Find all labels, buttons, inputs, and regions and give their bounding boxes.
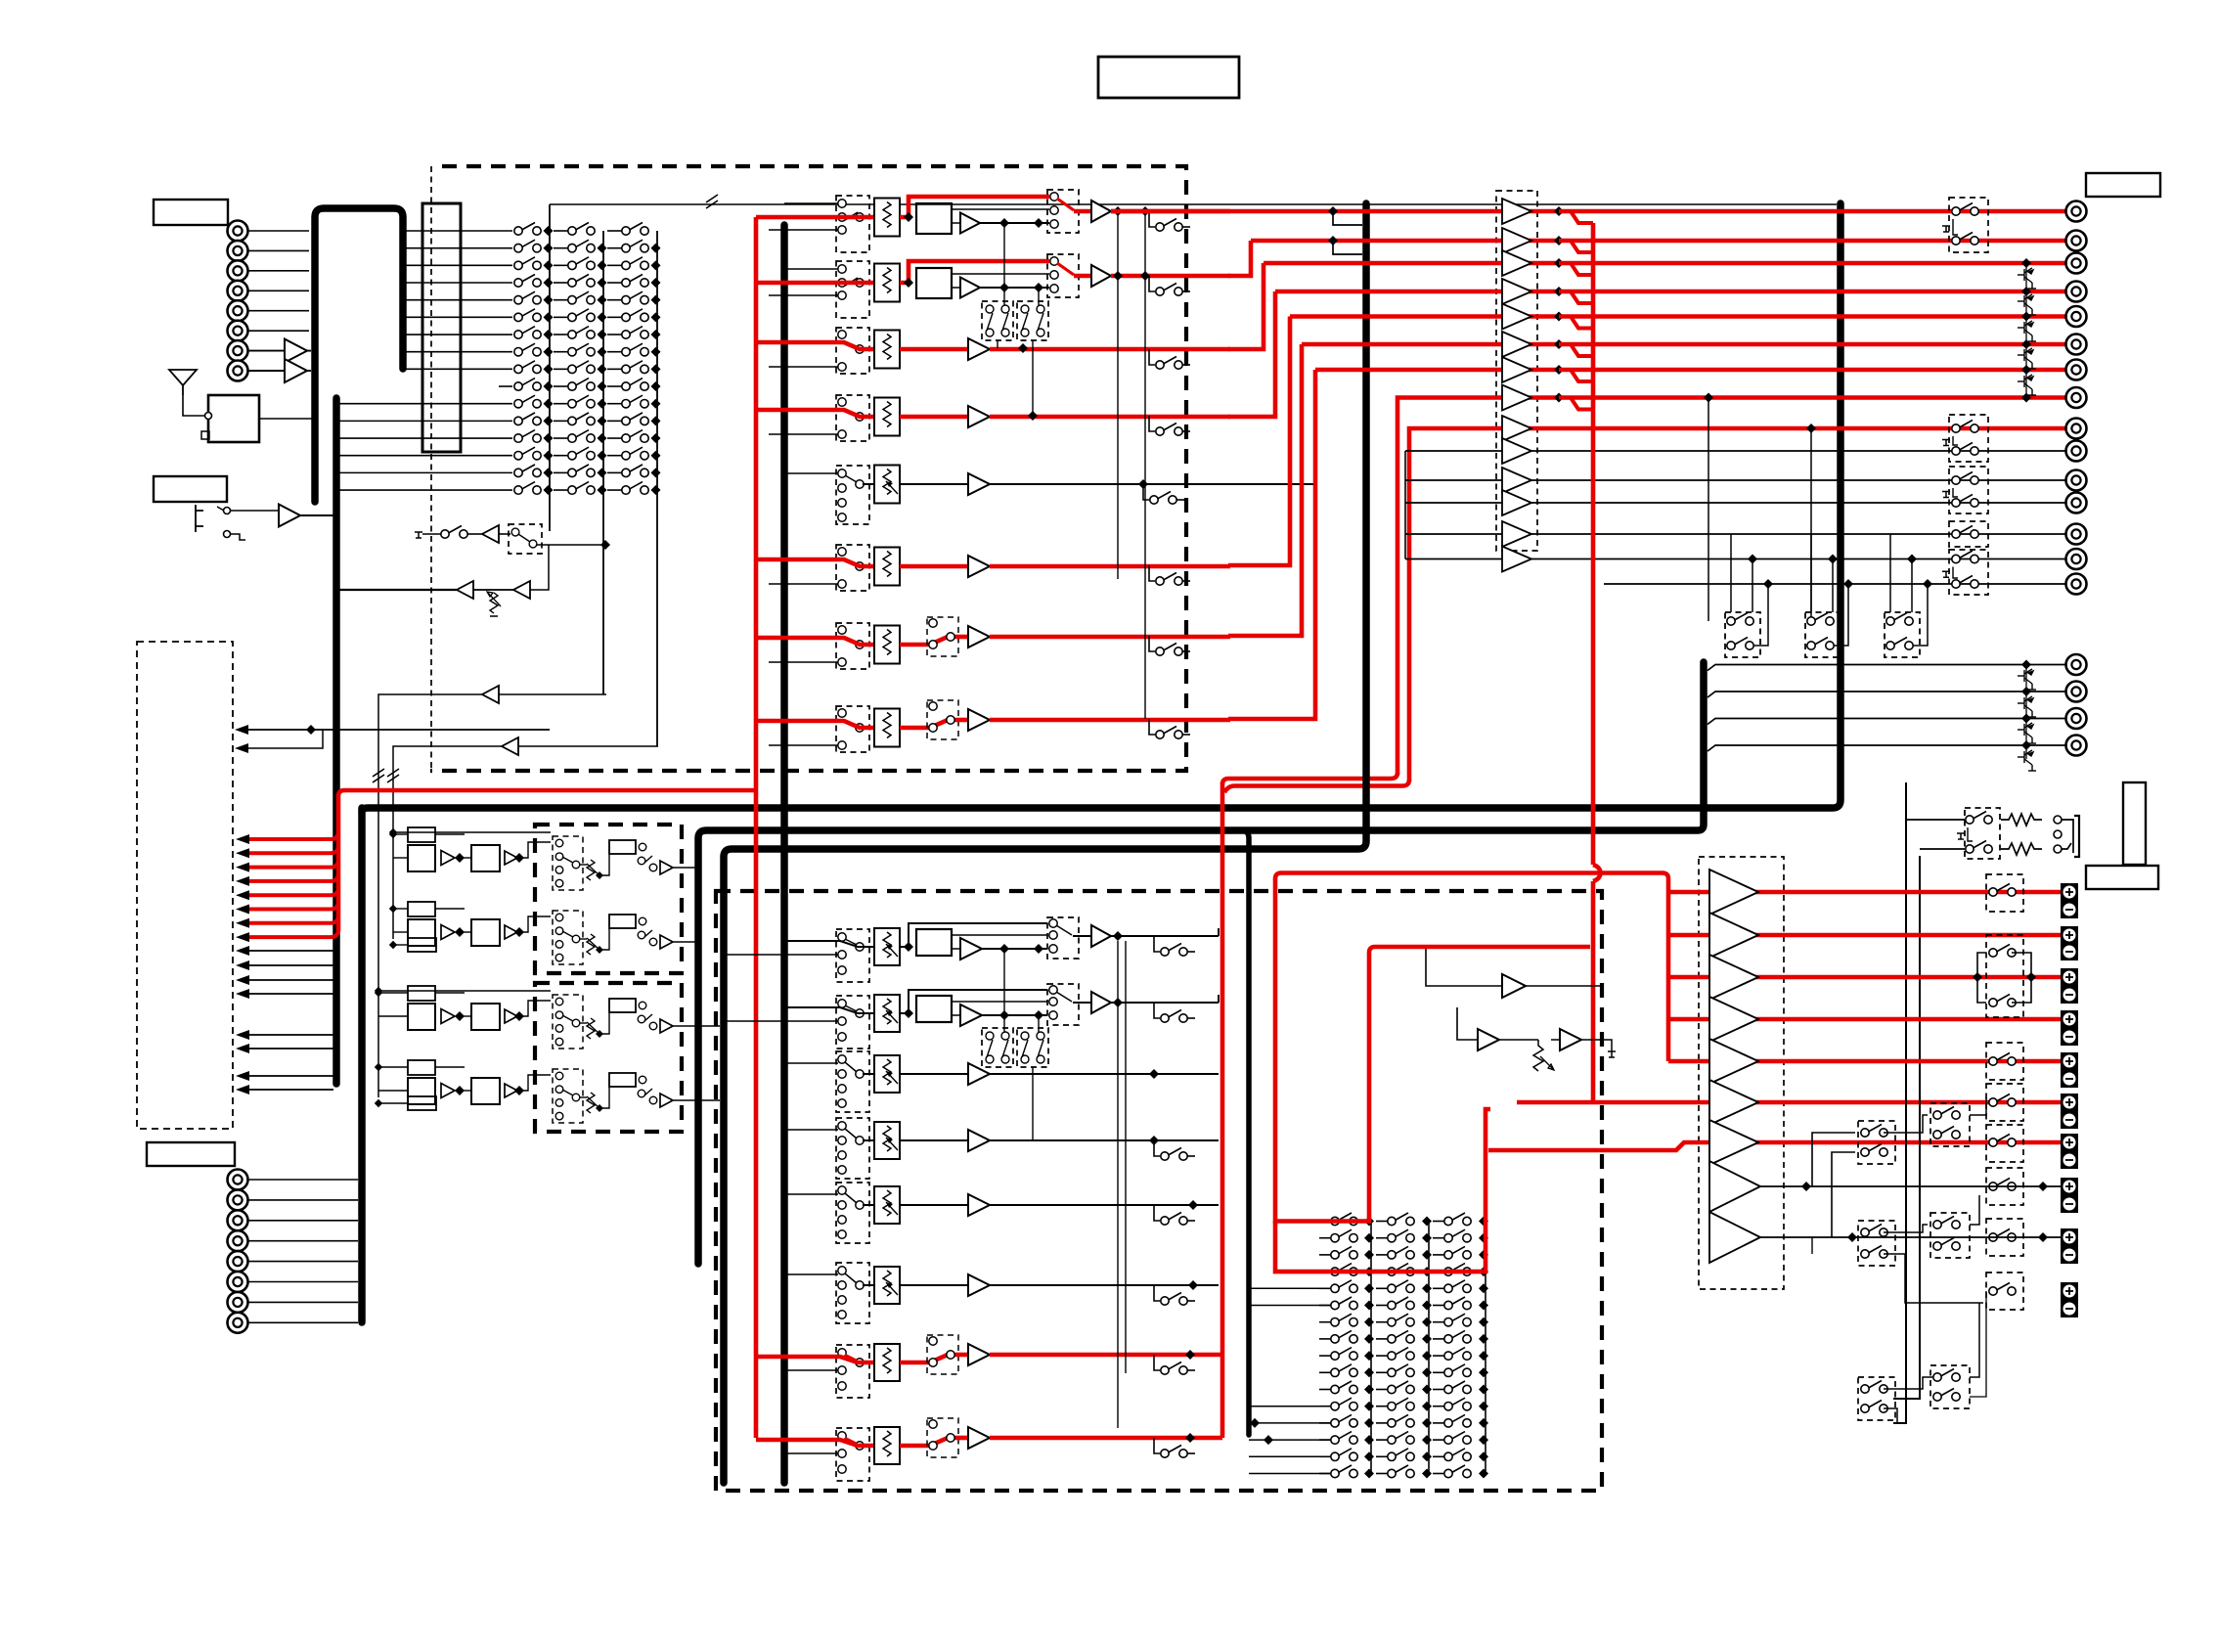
amp aux return 1 (left) xyxy=(499,693,606,695)
wire phones L xyxy=(1893,782,1906,1423)
line buffer xyxy=(1502,304,1531,330)
monitor line xyxy=(1405,558,2066,560)
wire xyxy=(248,370,286,372)
wire xyxy=(393,944,408,946)
wire out xyxy=(1111,274,1230,279)
red riser xyxy=(1228,370,1315,719)
wire xyxy=(952,1014,960,1016)
input select box xyxy=(836,328,869,374)
transistor chain link xyxy=(2025,665,2027,760)
adc block xyxy=(916,929,952,956)
wire xyxy=(554,247,568,249)
wire bus send red 5 xyxy=(243,887,338,895)
wire xyxy=(1032,340,1034,416)
wire amp8 xyxy=(1760,1185,2061,1187)
wire xyxy=(435,908,465,910)
wire xyxy=(460,1015,471,1017)
bus: sub input bus thick xyxy=(333,398,340,1084)
switch matrix r16c2 xyxy=(568,482,595,495)
monitor line xyxy=(1405,533,2066,535)
switch matrix r1c3 xyxy=(622,223,648,236)
wire feed xyxy=(756,410,874,417)
transistor chain link xyxy=(2025,263,2027,398)
buffer amp A7 xyxy=(285,339,307,363)
wire alt feed bottom xyxy=(769,229,838,231)
dashed box: DSP monitor section bottom xyxy=(716,891,1602,1491)
buffer xyxy=(960,1005,982,1026)
red mix line xyxy=(1251,239,2066,244)
wire bus send red 7 xyxy=(243,915,338,923)
wire xyxy=(952,222,960,224)
switch matrix r13c3 xyxy=(622,430,648,443)
line buffer xyxy=(1502,547,1531,572)
amp return L (left) xyxy=(457,581,473,599)
wire xyxy=(248,310,310,312)
red bus trunk vertical xyxy=(336,794,341,931)
dashed switch box xyxy=(509,524,542,554)
wire xyxy=(607,351,622,353)
terminal spk6+ xyxy=(2061,1094,2078,1111)
wire xyxy=(554,437,568,439)
wire xyxy=(1970,1291,1986,1397)
EQ out amp xyxy=(660,935,673,949)
label box top-right xyxy=(2086,173,2160,197)
matrix row 11 xyxy=(1331,1381,1357,1394)
switch matrix r10c2 xyxy=(568,379,595,391)
connector rec-out R14 xyxy=(2066,549,2087,569)
wire xyxy=(952,1001,1047,1003)
connector line-in L3 xyxy=(228,260,248,281)
switch matrix r11c3 xyxy=(622,395,648,408)
line buffer xyxy=(1502,357,1531,382)
monitor line xyxy=(1405,502,2066,504)
mute switch xyxy=(1149,349,1155,365)
select box xyxy=(553,995,583,1049)
connector tape-in B5 xyxy=(228,1251,248,1272)
terminal spk6- xyxy=(2061,1111,2078,1129)
terminal spk10+ xyxy=(2061,1282,2078,1300)
matrix row 12 xyxy=(1331,1398,1357,1410)
connector rec-out R15 xyxy=(2066,574,2087,595)
wire out xyxy=(990,1204,1219,1206)
wire xyxy=(952,948,960,950)
wire xyxy=(248,249,310,251)
wire matrix feed xyxy=(1249,1473,1331,1475)
switch matrix r8c2 xyxy=(568,343,595,356)
switch matrix r5c3 xyxy=(622,291,648,304)
wire xyxy=(1884,1115,1928,1133)
wire xyxy=(1032,1067,1034,1140)
line buffer xyxy=(1502,438,1531,464)
wire xyxy=(1970,1097,1986,1115)
wire xyxy=(599,928,609,950)
switch matrix r2c3 xyxy=(622,240,648,252)
switch matrix r13c1 xyxy=(514,430,541,443)
switch phones L xyxy=(1966,812,1992,825)
wire xyxy=(554,489,568,491)
phantom box b1 xyxy=(982,1028,1013,1067)
line buffer xyxy=(1502,199,1531,224)
wire tuner to bus xyxy=(259,418,313,420)
wire xyxy=(1003,224,1005,305)
wire matrix feed xyxy=(1249,1305,1331,1307)
switch matrix r9c2 xyxy=(568,361,595,374)
wire xyxy=(405,264,512,266)
wire xyxy=(554,368,568,370)
connector rec-out R9 xyxy=(2066,419,2087,439)
wire matrix feed xyxy=(1249,1455,1331,1457)
monitor line xyxy=(1405,479,2066,481)
matrix bus c3 xyxy=(1485,1222,1486,1474)
wire xyxy=(554,264,568,266)
switch matrix r2c1 xyxy=(514,240,541,252)
red riser tape xyxy=(1397,398,2066,776)
red mix line xyxy=(1111,209,2066,214)
wire xyxy=(982,948,1047,950)
wire xyxy=(339,420,512,422)
switch matrix r4c1 xyxy=(514,275,541,288)
wire xyxy=(517,1001,551,1016)
wire xyxy=(599,1012,609,1034)
red matrix row1 xyxy=(1331,1219,1371,1224)
wire xyxy=(405,282,512,284)
wire bus send red 3 xyxy=(243,860,338,868)
connector rec-out R6 xyxy=(2066,335,2087,355)
wire xyxy=(1581,1040,1612,1051)
insert switch box xyxy=(927,1335,958,1374)
connector line-in L1 xyxy=(228,221,248,242)
wire bus send red 6 xyxy=(243,902,338,910)
channel amp xyxy=(1091,992,1111,1013)
trim pot xyxy=(490,593,498,616)
bus col2 xyxy=(602,231,604,694)
level attenuator xyxy=(874,199,900,237)
adc block xyxy=(916,203,952,234)
bus col3 xyxy=(656,231,658,746)
phantom box b2 xyxy=(1017,1028,1048,1067)
wire xyxy=(900,1438,956,1446)
EQ block2 xyxy=(471,1004,500,1030)
wire xyxy=(1499,1039,1538,1041)
bus rec A xyxy=(1117,941,1119,1428)
terminal spk4- xyxy=(2061,1028,2078,1046)
wire xyxy=(607,471,622,473)
EQ DAC block xyxy=(408,1060,435,1075)
output select box xyxy=(1047,917,1079,959)
matrix row 2 xyxy=(1331,1229,1357,1242)
speaker relay box xyxy=(1986,1272,2023,1310)
EQ amp xyxy=(441,1084,455,1098)
dashed box: input channel section top xyxy=(430,166,1186,771)
relay switch box xyxy=(1949,521,1988,547)
wire xyxy=(1074,274,1091,279)
channel amp xyxy=(968,406,990,427)
channel amp xyxy=(968,1427,990,1449)
mute switch xyxy=(1149,211,1155,227)
resistor phones R xyxy=(2001,843,2042,855)
EQ amp2 xyxy=(505,851,517,865)
pot xyxy=(587,934,595,955)
bridge link phase xyxy=(1977,953,1986,1003)
bus cross thick xyxy=(362,203,1841,812)
speaker relay box xyxy=(1986,1043,2023,1080)
wire bus send blk 6 xyxy=(243,1048,333,1049)
connector line-in L6 xyxy=(228,321,248,341)
input select box xyxy=(836,623,869,669)
input select box bottom xyxy=(836,1183,869,1243)
wire xyxy=(248,1261,359,1263)
wire xyxy=(980,287,1049,289)
gain block xyxy=(609,840,636,854)
wire xyxy=(554,299,568,301)
wire xyxy=(300,514,333,516)
wire out xyxy=(990,1436,1222,1441)
channel amp xyxy=(1091,265,1111,287)
wire matrix feed xyxy=(1249,1287,1331,1289)
connector line-in L8 xyxy=(228,361,248,381)
gain block xyxy=(609,999,636,1012)
wire xyxy=(554,230,568,232)
terminal spk4+ xyxy=(2061,1010,2078,1028)
wire xyxy=(1708,665,2065,671)
dashed line: left edge of top channel box xyxy=(430,166,432,771)
input select box xyxy=(836,545,869,591)
wire xyxy=(248,230,310,232)
wire alt feed top xyxy=(784,268,838,270)
wire xyxy=(952,287,960,289)
mute switch xyxy=(1149,565,1155,581)
wire xyxy=(1884,1408,1897,1423)
speaker select box xyxy=(1858,1121,1895,1164)
level pot bottom xyxy=(874,995,900,1032)
wire xyxy=(900,1204,968,1206)
connector block tall rectangle xyxy=(422,203,461,452)
speaker select box xyxy=(1858,1221,1895,1266)
matrix row 6 xyxy=(1331,1297,1357,1310)
wire xyxy=(248,1199,359,1201)
wire alt feed xyxy=(769,744,838,746)
terminal spk7+ xyxy=(2061,1134,2078,1151)
wire xyxy=(554,471,568,473)
level attenuator xyxy=(874,1344,900,1381)
relay switch box xyxy=(1949,467,1988,513)
transistor mute xyxy=(2018,348,2036,369)
speaker select box xyxy=(1930,1103,1970,1146)
connector line-in L7 xyxy=(228,340,248,361)
matrix row 8 xyxy=(1331,1330,1357,1343)
output select box xyxy=(1047,984,1079,1025)
level attenuator xyxy=(874,331,900,369)
wire return mon xyxy=(338,589,457,591)
tuner pin xyxy=(201,431,209,439)
line buffer xyxy=(1502,490,1531,515)
connector tape-in B1 xyxy=(228,1170,248,1190)
wire xyxy=(1038,1015,1040,1032)
matrix row 13 xyxy=(1331,1414,1357,1427)
red tap xyxy=(1554,393,1564,403)
channel amp xyxy=(968,1063,990,1085)
connector line-in L4 xyxy=(228,281,248,301)
red link bottom xyxy=(1220,782,1225,1438)
switch matrix r10c1 xyxy=(514,379,541,391)
wire xyxy=(1003,949,1005,1032)
EQ clock block xyxy=(408,938,436,952)
switch xyxy=(638,857,645,865)
wire out xyxy=(990,564,1230,569)
wire feed xyxy=(784,1007,874,1013)
red speaker line xyxy=(1668,890,2066,895)
wire xyxy=(980,222,1049,224)
select box xyxy=(553,836,583,890)
line buffer xyxy=(1502,468,1531,493)
wire xyxy=(248,350,286,352)
wire xyxy=(607,368,622,370)
monitor line 597 xyxy=(1604,583,2066,585)
wire out xyxy=(990,415,1230,420)
wire top xyxy=(900,990,1047,1013)
wire feed xyxy=(756,1357,874,1362)
wire xyxy=(1551,1039,1560,1041)
monitor buffer 3 xyxy=(1560,1029,1581,1050)
wire out xyxy=(1111,935,1219,937)
wire xyxy=(460,931,471,933)
input select box bottom xyxy=(836,1051,869,1112)
wire xyxy=(1708,719,2065,725)
phantom switch box 2 xyxy=(1017,301,1048,340)
wire feed xyxy=(784,1129,838,1131)
wire antenna xyxy=(183,395,204,416)
switch talkback xyxy=(441,526,467,539)
wire feeds xyxy=(393,833,408,835)
wire xyxy=(952,208,1049,210)
wire feeds xyxy=(393,908,408,910)
transistor mute g xyxy=(2018,750,2036,771)
wire feed xyxy=(784,1062,838,1064)
red bus main mix A xyxy=(338,790,756,796)
wire xyxy=(435,992,465,994)
buffer amp A8 xyxy=(285,359,307,382)
wire out xyxy=(990,1284,1219,1286)
switch matrix r3c1 xyxy=(514,257,541,270)
wire alt feed bottom xyxy=(769,294,838,296)
wire xyxy=(499,385,512,387)
wire xyxy=(554,334,568,335)
bus channel feed thick xyxy=(780,225,788,1483)
connector tape-in B6 xyxy=(228,1272,248,1292)
monitor buffers xyxy=(1426,949,1602,986)
matrix row 3 xyxy=(1331,1246,1357,1259)
wire bus send blk 7 xyxy=(243,1075,333,1077)
label box phones vertical xyxy=(2123,782,2146,865)
buffer xyxy=(960,278,980,298)
group tap xyxy=(1328,206,1338,216)
label box top-left xyxy=(154,200,228,225)
wire xyxy=(1038,289,1040,305)
wire xyxy=(607,403,622,405)
connector line-in L5 xyxy=(228,300,248,321)
wire xyxy=(1832,559,1834,613)
terminal spk2- xyxy=(2061,943,2078,960)
switch matrix r4c3 xyxy=(622,275,648,288)
switch matrix r6c3 xyxy=(622,309,648,322)
level pot xyxy=(874,1122,900,1159)
switch matrix r14c3 xyxy=(622,447,648,460)
connector group-out 4 xyxy=(2066,736,2087,756)
wire xyxy=(339,489,512,491)
red mix line xyxy=(1275,290,2066,294)
switch matrix r7c2 xyxy=(568,327,595,339)
wire out xyxy=(1111,1002,1219,1004)
wire xyxy=(554,282,568,284)
power amp xyxy=(1709,1080,1758,1125)
wire bus send blk 4 xyxy=(243,993,333,995)
switch matrix r7c1 xyxy=(514,327,541,339)
wire xyxy=(579,938,587,940)
power amp xyxy=(1709,1039,1758,1084)
red riser xyxy=(1228,291,1275,417)
wire phones R xyxy=(1893,856,1920,1399)
wire out xyxy=(1111,209,1230,214)
level attenuator xyxy=(874,548,900,586)
wire xyxy=(607,334,622,335)
wire xyxy=(537,544,605,546)
EQ out amp xyxy=(660,861,673,874)
wire xyxy=(378,694,482,1097)
wire xyxy=(1913,584,1928,646)
power amp xyxy=(1709,955,1758,1000)
switch matrix r14c1 xyxy=(514,447,541,460)
pot xyxy=(587,1093,595,1113)
matrix row 7 xyxy=(1331,1314,1357,1326)
line buffer xyxy=(1502,385,1531,411)
wire xyxy=(530,545,549,590)
wire out xyxy=(673,941,698,943)
level attenuator xyxy=(874,709,900,747)
bus group R thick xyxy=(724,203,1366,1483)
channel amp xyxy=(968,556,990,577)
wire xyxy=(1708,692,2065,697)
phones jack xyxy=(2054,816,2062,824)
wire xyxy=(473,589,513,591)
switch matrix r6c1 xyxy=(514,309,541,322)
dashed box: EQ block 1 xyxy=(535,825,682,973)
power amp xyxy=(1709,997,1758,1042)
wire xyxy=(554,420,568,422)
wire xyxy=(956,718,968,723)
wire bus send blk 2 xyxy=(243,964,333,966)
terminal spk1- xyxy=(2061,901,2078,918)
terminal spk5- xyxy=(2061,1070,2078,1088)
EQ DAC block xyxy=(408,827,435,842)
switch xyxy=(638,1015,645,1023)
level pot xyxy=(874,466,900,504)
terminal spk2+ xyxy=(2061,926,2078,944)
mic buffer amp xyxy=(279,505,300,527)
group tap xyxy=(1328,236,1338,246)
power amp xyxy=(1709,913,1758,958)
relay switch box xyxy=(1949,415,1988,462)
red riser xyxy=(1228,263,1264,349)
matrix row 15 xyxy=(1331,1449,1357,1461)
output select box xyxy=(1047,254,1079,297)
wire xyxy=(1884,1254,1983,1303)
red mix line xyxy=(1302,342,2066,347)
label box phones level xyxy=(2086,866,2158,889)
wire xyxy=(900,415,968,420)
wire alt feed xyxy=(724,1020,838,1022)
wire red top xyxy=(900,197,1049,217)
wire xyxy=(900,347,968,352)
